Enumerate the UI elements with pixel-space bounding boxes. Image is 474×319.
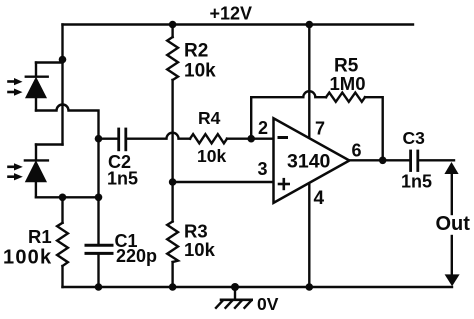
svg-text:Out: Out bbox=[436, 213, 471, 235]
svg-text:6: 6 bbox=[352, 141, 362, 161]
svg-text:1n5: 1n5 bbox=[107, 169, 138, 189]
svg-text:10k: 10k bbox=[184, 61, 216, 82]
svg-text:0V: 0V bbox=[257, 294, 279, 314]
svg-text:1n5: 1n5 bbox=[401, 172, 432, 192]
svg-text:+12V: +12V bbox=[210, 4, 253, 24]
svg-text:7: 7 bbox=[315, 119, 325, 139]
svg-text:3: 3 bbox=[258, 159, 268, 179]
svg-text:R4: R4 bbox=[198, 108, 221, 128]
svg-text:R1: R1 bbox=[28, 226, 52, 247]
svg-text:3140: 3140 bbox=[287, 151, 331, 173]
svg-text:2: 2 bbox=[258, 118, 268, 138]
svg-text:220p: 220p bbox=[116, 246, 157, 266]
svg-text:10k: 10k bbox=[184, 239, 216, 260]
svg-text:4: 4 bbox=[314, 188, 325, 209]
svg-text:C3: C3 bbox=[403, 128, 426, 148]
svg-text:R2: R2 bbox=[184, 41, 208, 62]
svg-text:1M0: 1M0 bbox=[330, 73, 366, 94]
svg-text:100k: 100k bbox=[3, 247, 52, 269]
svg-text:10k: 10k bbox=[197, 146, 226, 166]
